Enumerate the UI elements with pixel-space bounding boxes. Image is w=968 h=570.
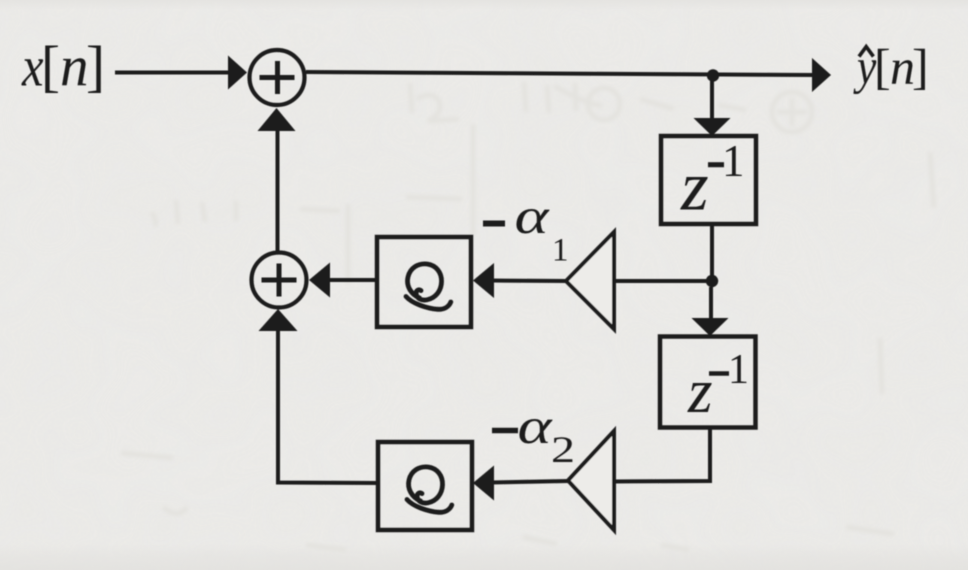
node ŷ[n] output label [853,39,928,96]
svg-text:α: α [518,398,554,455]
amplifier A1 (gain -alpha1) [566,232,614,329]
svg-text:]: ] [86,36,105,99]
svg-text:n: n [60,36,89,99]
wire A1 to quantizer Q1 with arrowhead [473,263,566,298]
wire S2 up to S1 with arrowhead [258,108,296,251]
amplifier A2 (gain -alpha2) [568,431,614,530]
wire Q2 left, down-leg to adder S2 with arrowhead [259,309,379,483]
wire junction B down to delay Z2 with arrowhead [692,287,729,336]
junction node A [707,69,719,81]
summing node S2 [252,253,307,308]
svg-text:1: 1 [728,347,749,393]
svg-text:[: [ [874,39,891,95]
svg-text:2: 2 [551,430,575,471]
wire S1 to output node with arrowhead [306,58,831,92]
svg-text:α: α [515,188,551,245]
wire Z1 to junction B [710,224,714,281]
svg-text:1: 1 [552,233,569,269]
svg-text:[: [ [41,36,60,99]
junction node B [706,275,718,287]
delay block Z2 (z^-1) [660,337,756,428]
svg-text:z: z [680,148,709,226]
wire junction A down to delay Z1 with arrowhead [694,76,731,136]
svg-text:z: z [687,356,713,426]
node x[n] input label [21,36,105,99]
wire Q1 to adder S2 with arrowhead [309,263,377,298]
quantizer Q2 [378,442,472,530]
wire junction B to amplifier A1 [616,279,712,283]
wire A2 to quantizer Q2 with arrowhead [473,466,568,501]
ghost bleed-through marks (decorative) [121,82,934,550]
quantizer Q1 [377,237,471,327]
svg-text:1: 1 [722,136,745,186]
svg-text:]: ] [912,39,929,95]
label -alpha1 [483,188,569,269]
wire x[n] to adder S1 with arrowhead [115,56,247,90]
wire Z2 down and left to amplifier A2 [614,427,710,482]
summing node S1 [250,50,305,105]
delay block Z1 (z^-1) [661,136,756,226]
label -alpha2 [492,398,575,471]
